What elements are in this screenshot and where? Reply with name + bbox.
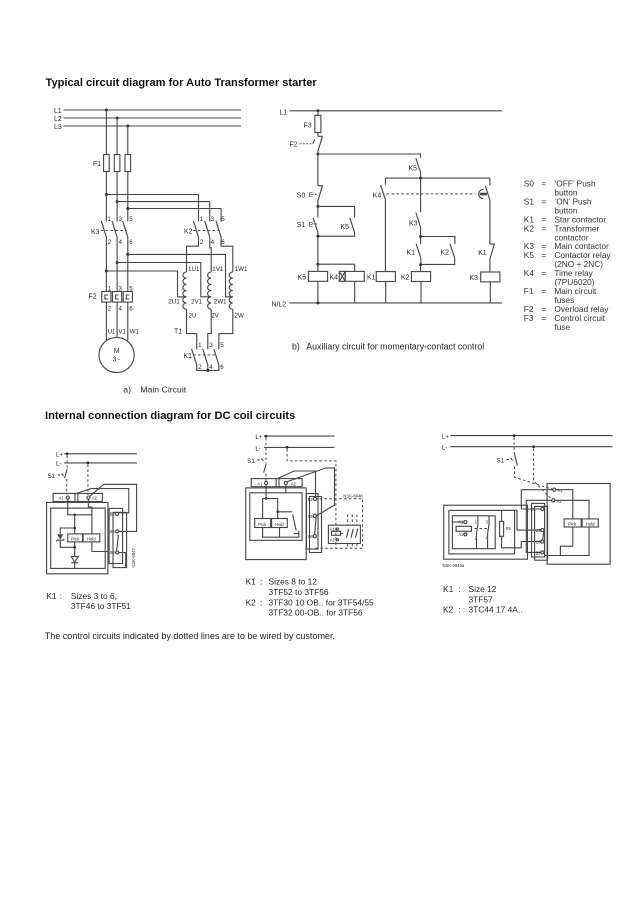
svg-text:85: 85 bbox=[110, 529, 115, 534]
svg-text:Sizes 3 to 6,: Sizes 3 to 6, bbox=[71, 591, 117, 601]
autotransformer T1 winding U phase bbox=[168, 266, 200, 320]
svg-text:3TF46 to 3TF51: 3TF46 to 3TF51 bbox=[71, 601, 131, 611]
node below S0 bbox=[316, 205, 319, 208]
wire K1 coil to N/L2 bbox=[385, 282, 387, 303]
DC2 aux terminal B2 bbox=[308, 497, 317, 502]
wire K2 pole6 to winding 1W1 bbox=[221, 237, 233, 272]
wire 2W to K1 pole 5 bbox=[219, 309, 233, 349]
DC3 type labels K1 K2 bbox=[443, 584, 523, 614]
DC2 aux contact block boxes bbox=[307, 494, 322, 553]
svg-text:=: = bbox=[541, 197, 546, 207]
svg-text:96: 96 bbox=[308, 534, 313, 539]
svg-text:L+: L+ bbox=[442, 433, 449, 440]
svg-text:A1: A1 bbox=[330, 526, 336, 531]
wire 2V to K1 pole 3 bbox=[208, 309, 211, 349]
svg-text:2W1: 2W1 bbox=[214, 299, 227, 306]
svg-text:The control circuits indicated: The control circuits indicated by dotted… bbox=[45, 631, 335, 641]
svg-text:M: M bbox=[114, 348, 120, 355]
node branch to K2 pole 3 bbox=[116, 200, 210, 203]
wire K3 coil to N/L2 bbox=[489, 282, 491, 303]
DC2 aux terminal 96 bbox=[308, 534, 316, 539]
svg-text:L2: L2 bbox=[54, 116, 62, 123]
svg-text:5: 5 bbox=[129, 216, 133, 223]
wire parallel branch top bbox=[318, 206, 355, 217]
svg-text:1: 1 bbox=[200, 216, 204, 223]
DC1 switch S1 bbox=[48, 456, 68, 495]
svg-text:N/L2: N/L2 bbox=[272, 301, 287, 308]
DC1 rail L- bbox=[56, 461, 137, 468]
legend K3 bbox=[524, 241, 609, 251]
DC3 middle aux module boxes bbox=[532, 503, 548, 560]
svg-text:85: 85 bbox=[308, 514, 313, 519]
DC2 aux terminal 85 bbox=[308, 514, 316, 519]
wire into K5 coil bbox=[317, 264, 319, 271]
svg-text:Pick: Pick bbox=[258, 522, 267, 527]
svg-text:3~: 3~ bbox=[113, 356, 121, 363]
svg-text:K2: K2 bbox=[441, 250, 450, 257]
DC3 rail L- bbox=[442, 445, 613, 452]
supply line L1 bbox=[54, 108, 241, 115]
contact K5 parallel with S1 (NO) bbox=[318, 218, 355, 236]
svg-text:2W: 2W bbox=[235, 313, 244, 320]
svg-text:1U1: 1U1 bbox=[188, 266, 200, 273]
DC2 wire A2 stub bbox=[285, 485, 287, 493]
svg-text:6: 6 bbox=[129, 306, 133, 313]
DC1 terminal strip A1 A2 bbox=[53, 493, 102, 501]
svg-text:=: = bbox=[541, 313, 546, 323]
ON push button S1 (NO) bbox=[297, 206, 318, 236]
svg-text:Rs: Rs bbox=[506, 526, 511, 531]
svg-text:A1: A1 bbox=[558, 488, 564, 493]
svg-text::: : bbox=[459, 605, 461, 615]
DC3 relay K2 box (3TC44) bbox=[452, 516, 495, 549]
DC2 drawing number NSK-6948 bbox=[343, 494, 363, 499]
svg-text:6: 6 bbox=[221, 239, 225, 246]
svg-text:K3: K3 bbox=[91, 229, 100, 236]
wire F3 to F2 contact bbox=[317, 133, 319, 137]
svg-text:1: 1 bbox=[108, 216, 112, 223]
DC2 switch S1 bbox=[247, 438, 266, 481]
contact K1 (NO) above K2 coil bbox=[407, 237, 421, 265]
DC1 zener diode branch bbox=[56, 528, 75, 547]
heading: Typical circuit diagram for Auto Transformer starter bbox=[46, 77, 318, 89]
svg-text:=: = bbox=[541, 223, 546, 233]
svg-text:2V: 2V bbox=[211, 313, 219, 320]
svg-text:B2: B2 bbox=[308, 497, 314, 502]
legend F3 bbox=[524, 313, 606, 332]
svg-text::: : bbox=[60, 591, 62, 601]
node below S1 bbox=[316, 235, 319, 265]
svg-text:K1: K1 bbox=[246, 577, 257, 587]
svg-text:Internal connection diagram fo: Internal connection diagram for DC coil … bbox=[45, 410, 295, 422]
DC2 wire strip to terminal B2 bbox=[278, 471, 316, 497]
DC3 switch S1 bbox=[497, 437, 553, 489]
svg-text:NSK-6947: NSK-6947 bbox=[131, 548, 136, 568]
svg-text:3TF30 10 OB.. for 3TF54/55: 3TF30 10 OB.. for 3TF54/55 bbox=[269, 597, 375, 607]
svg-text:V1: V1 bbox=[118, 328, 126, 335]
svg-text:K1: K1 bbox=[443, 584, 454, 594]
DC2 bottom rail wires bbox=[263, 528, 299, 538]
DC3 wire Rs bottom to terminal 28 bbox=[502, 536, 541, 548]
wire K3 pole2 down bbox=[105, 237, 107, 292]
svg-text:3TF32 00-OB.. for 3TF56: 3TF32 00-OB.. for 3TF56 bbox=[269, 608, 363, 618]
svg-text:a): a) bbox=[123, 385, 131, 395]
wire F2 to motor V1 bbox=[116, 302, 118, 337]
node branch to K2 pole 5 bbox=[126, 207, 221, 210]
svg-text:L3: L3 bbox=[54, 124, 62, 131]
DC3 terminal A1 bbox=[553, 488, 564, 493]
svg-text:E: E bbox=[309, 222, 313, 229]
contactor K3 bbox=[91, 216, 133, 246]
legend S0 bbox=[524, 179, 596, 198]
star point wire of K1 bbox=[197, 364, 219, 372]
node after F2 bbox=[316, 151, 319, 186]
wire K3 pole4 down bbox=[116, 237, 118, 292]
svg-text:S1: S1 bbox=[297, 222, 306, 229]
svg-text:3: 3 bbox=[119, 216, 123, 223]
DC1 Pick coil box bbox=[68, 534, 83, 542]
svg-text:4: 4 bbox=[209, 364, 213, 371]
DC2 wire to Hold and internal contact bbox=[276, 499, 298, 534]
fuse F3 bbox=[304, 115, 321, 132]
wire F2 to motor W1 bbox=[127, 302, 129, 341]
svg-text:Sizes 8 to 12: Sizes 8 to 12 bbox=[269, 577, 318, 587]
legend K1 bbox=[524, 215, 606, 225]
svg-text:T1: T1 bbox=[174, 329, 182, 336]
svg-text:E: E bbox=[309, 192, 313, 199]
DC3 contact stub wires bbox=[477, 516, 490, 549]
svg-text:K2: K2 bbox=[184, 229, 193, 236]
svg-text:K4: K4 bbox=[330, 275, 339, 282]
svg-text:2: 2 bbox=[200, 239, 204, 246]
svg-text:F2: F2 bbox=[290, 142, 298, 149]
node branch to K4 coil bbox=[316, 263, 354, 272]
svg-text:A2: A2 bbox=[458, 532, 464, 537]
svg-text:6: 6 bbox=[129, 239, 133, 246]
svg-text:4: 4 bbox=[211, 239, 215, 246]
svg-text:5: 5 bbox=[220, 342, 224, 349]
DC3 resistor Rs bbox=[500, 521, 511, 536]
DC1 contactor body outer box bbox=[47, 502, 108, 573]
DC2 terminal strip A1 A2 bbox=[251, 479, 302, 487]
aux supply line L1 bbox=[280, 109, 503, 116]
svg-text:F2: F2 bbox=[89, 294, 97, 301]
DC3 drawing number NSK-6949a bbox=[443, 563, 465, 568]
DC1 drawing number NSK-6947 bbox=[131, 548, 136, 568]
star contactor K1 bbox=[184, 342, 225, 371]
junction on L1 bbox=[105, 109, 108, 112]
DC2 rail L- bbox=[255, 445, 334, 452]
DC3 module terminal B1 bbox=[531, 507, 544, 512]
svg-text:L-: L- bbox=[56, 461, 62, 468]
DC1 dashed L- to A2 bbox=[87, 465, 89, 496]
transformer contactor coil K2 bbox=[401, 272, 431, 282]
DC3 left outer box bbox=[444, 505, 528, 559]
time relay coil K4 bbox=[330, 271, 365, 281]
DC1 wire node to Pick bbox=[73, 515, 76, 534]
DC2 relay K2 box bbox=[328, 525, 360, 543]
DC1 aux terminal 96 bbox=[110, 550, 119, 555]
overload relay contact F2 (NC) bbox=[290, 136, 323, 151]
DC3 Pick Hold bottom wires bbox=[545, 527, 589, 556]
contactor relay coil K5 bbox=[298, 271, 328, 281]
svg-text:K2: K2 bbox=[524, 223, 535, 233]
svg-text:L-: L- bbox=[255, 445, 261, 452]
svg-text:6: 6 bbox=[220, 364, 224, 371]
DC1 inner box bbox=[51, 508, 105, 568]
wire K3 pole6 down bbox=[127, 237, 129, 292]
DC2 type labels K1 K2 bbox=[246, 577, 374, 618]
DC2 wire A1 down bbox=[263, 485, 278, 500]
neutral line N/L2 bbox=[272, 301, 503, 308]
svg-text:K3: K3 bbox=[470, 275, 479, 282]
footnote about dotted lines bbox=[45, 631, 335, 641]
svg-text:b): b) bbox=[292, 341, 300, 351]
bus node line y178 bbox=[385, 177, 490, 180]
svg-text:96: 96 bbox=[110, 550, 115, 555]
svg-text:K1: K1 bbox=[407, 250, 416, 257]
svg-text:K3: K3 bbox=[409, 220, 418, 227]
svg-text::: : bbox=[260, 597, 262, 607]
wire K2 pole4 to winding 1V1 bbox=[210, 237, 211, 272]
DC1 wire A1 down bbox=[68, 499, 92, 516]
svg-text:K1: K1 bbox=[367, 275, 376, 282]
svg-text:NSK-6949a: NSK-6949a bbox=[443, 563, 465, 568]
DC3 left middle box bbox=[449, 510, 515, 554]
wire K5 coil to N/L2 bbox=[317, 281, 319, 303]
legend K4 bbox=[524, 268, 595, 287]
svg-text:L-: L- bbox=[442, 445, 448, 452]
svg-text:3: 3 bbox=[211, 216, 215, 223]
svg-text:K4: K4 bbox=[524, 268, 535, 278]
svg-text:NSK-6948: NSK-6948 bbox=[343, 494, 363, 499]
svg-text:3TF57: 3TF57 bbox=[469, 594, 494, 604]
svg-text:K1: K1 bbox=[478, 250, 487, 257]
star contactor coil K1 bbox=[367, 272, 395, 282]
svg-text:2U1: 2U1 bbox=[168, 299, 180, 306]
svg-text:F3: F3 bbox=[304, 123, 312, 130]
wire L1 to fuse F1a bbox=[105, 110, 107, 155]
svg-text:A1: A1 bbox=[59, 496, 65, 501]
svg-text:L+: L+ bbox=[255, 434, 262, 441]
node tap line to 2W1 bbox=[126, 253, 233, 297]
svg-text:2U: 2U bbox=[189, 313, 197, 320]
svg-text:2: 2 bbox=[108, 306, 112, 313]
wire fuse F1b to contactor K3 pole 3 bbox=[116, 172, 118, 222]
time-delay contact of K4 (right) bbox=[479, 178, 490, 244]
DC3 terminal A2 bbox=[552, 499, 563, 504]
DC2 Hold coil box bbox=[272, 519, 288, 528]
svg-text:S1: S1 bbox=[497, 457, 505, 464]
DC3 module terminal 28 bbox=[536, 539, 544, 544]
svg-text:Pick: Pick bbox=[71, 537, 80, 542]
svg-text:S1: S1 bbox=[524, 197, 535, 207]
svg-text:3: 3 bbox=[209, 342, 213, 349]
svg-text:3TF52 to 3TF56: 3TF52 to 3TF56 bbox=[269, 587, 329, 597]
contact K4 (NO, left) bbox=[373, 178, 386, 272]
svg-text:fuse: fuse bbox=[554, 322, 570, 332]
DC3 wire A1 to Pick bbox=[556, 490, 573, 519]
svg-text:L+: L+ bbox=[56, 452, 63, 459]
node above K2 coil bbox=[419, 263, 422, 271]
DC2 dashed box bottom bbox=[315, 499, 362, 549]
svg-text:K2: K2 bbox=[401, 275, 410, 282]
svg-text:=: = bbox=[541, 179, 546, 189]
svg-text:1: 1 bbox=[198, 342, 202, 349]
node L1 to F3 bbox=[316, 109, 319, 115]
wire fuse F1a to contactor K3 pole 1 bbox=[105, 172, 107, 222]
DC2 Pick coil box bbox=[255, 519, 271, 528]
DC3 wire coil A1 to box edge bbox=[452, 521, 464, 523]
svg-text:K5: K5 bbox=[298, 275, 307, 282]
wire K2 pole2 to winding 1U1 bbox=[187, 237, 199, 272]
autotransformer T1 winding V phase bbox=[191, 266, 224, 320]
svg-text:W1: W1 bbox=[130, 328, 140, 335]
DC2 dashed L- into customer box bbox=[287, 449, 336, 548]
DC3 wire A2 to Hold bbox=[555, 500, 589, 519]
svg-text:A2: A2 bbox=[330, 537, 336, 542]
junction on L3 bbox=[126, 125, 129, 128]
svg-text:Pick: Pick bbox=[568, 522, 577, 527]
svg-text:2V1: 2V1 bbox=[191, 299, 203, 306]
DC2 dashed leads of relay K2 bbox=[348, 515, 357, 549]
mechanical link dashed K4 to delayed contact bbox=[387, 193, 476, 195]
DC1 freewheel diode bbox=[71, 542, 78, 569]
DC2 rail L+ bbox=[255, 434, 334, 441]
svg-text:1V1: 1V1 bbox=[212, 266, 224, 273]
DC1 rail L+ bbox=[56, 452, 137, 459]
svg-text:S1: S1 bbox=[48, 473, 56, 480]
svg-text:B1: B1 bbox=[531, 507, 537, 512]
DC1 Hold coil box bbox=[83, 534, 100, 542]
wire 2U to K1 pole 1 bbox=[187, 309, 197, 349]
wire branch to K5 contact bbox=[318, 154, 421, 158]
svg-text:Typical circuit diagram for Au: Typical circuit diagram for Auto Transfo… bbox=[46, 77, 318, 89]
svg-text:=: = bbox=[541, 286, 546, 296]
svg-text:S0: S0 bbox=[524, 179, 535, 189]
svg-text:L1: L1 bbox=[54, 108, 62, 115]
DC3 Pick coil box bbox=[564, 519, 581, 527]
node below K3 contact bbox=[419, 235, 455, 244]
DC1 wire Hold to aux block bbox=[92, 542, 108, 552]
DC1 aux terminal B2 bbox=[110, 512, 119, 517]
legend S1 bbox=[524, 197, 592, 216]
supply line L2 bbox=[54, 116, 241, 123]
DC3 rail L+ bbox=[442, 433, 613, 440]
svg-text:A1: A1 bbox=[257, 481, 263, 486]
autotransformer T1 winding W phase bbox=[214, 266, 248, 320]
DC3 module terminal B2 bbox=[536, 550, 544, 555]
DC3 contactor big box bbox=[547, 484, 610, 565]
wire L2 to fuse F1b bbox=[116, 118, 118, 155]
svg-text:1: 1 bbox=[475, 519, 478, 524]
svg-text:K5: K5 bbox=[341, 224, 350, 231]
svg-text:S0: S0 bbox=[297, 193, 306, 200]
heading: Internal connection diagram for DC coil circuits bbox=[45, 410, 295, 422]
DC1 aux contact blade 85-96 bbox=[117, 535, 119, 551]
svg-text:4: 4 bbox=[119, 306, 123, 313]
svg-text:Auxiliary circuit for momentar: Auxiliary circuit for momentary-contact … bbox=[306, 341, 484, 351]
DC1 wire strip to terminal B2 bbox=[76, 489, 128, 513]
caption a) Main Circuit bbox=[123, 385, 186, 395]
supply line L3 bbox=[54, 124, 241, 131]
wire F2 to motor U1 bbox=[105, 302, 107, 341]
svg-text::: : bbox=[459, 584, 461, 594]
contact K3 (NO, middle) bbox=[409, 178, 421, 236]
contact K2 (NO) parallel bbox=[421, 244, 455, 265]
DC1 wire 96 right bbox=[119, 553, 126, 568]
DC1 type label K1 bbox=[46, 591, 131, 611]
DC3 module terminal 23 bbox=[536, 528, 544, 533]
svg-text:K5: K5 bbox=[409, 166, 418, 173]
svg-text:U1: U1 bbox=[108, 328, 116, 335]
node branch to K2 pole 1 bbox=[105, 193, 199, 196]
svg-text:Main Circuit: Main Circuit bbox=[140, 385, 186, 395]
svg-text:F1: F1 bbox=[93, 161, 101, 168]
svg-text:K2: K2 bbox=[443, 605, 454, 615]
contact K5 in series branch (NO) bbox=[409, 158, 421, 178]
svg-text:5: 5 bbox=[221, 216, 225, 223]
DC1 aux terminal 85 bbox=[110, 529, 119, 534]
svg-text:Hold: Hold bbox=[275, 522, 284, 527]
DC2 inner box bbox=[250, 493, 302, 541]
svg-text:4: 4 bbox=[119, 239, 123, 246]
svg-text:F3: F3 bbox=[524, 313, 534, 323]
svg-text:3: 3 bbox=[486, 519, 489, 524]
main contactor coil K3 bbox=[470, 272, 500, 282]
junction on L2 bbox=[116, 117, 119, 120]
legend F2 bbox=[524, 304, 609, 314]
svg-text:S1: S1 bbox=[247, 458, 255, 465]
DC3 wire A1 loop to B1 bbox=[521, 490, 552, 509]
svg-text:K2: K2 bbox=[246, 597, 257, 607]
DC2 contactor body outer box bbox=[246, 488, 307, 560]
DC1 wire A2 to Hold bbox=[88, 499, 92, 534]
DC3 module contact blade bbox=[543, 532, 544, 540]
legend K2 bbox=[524, 223, 600, 242]
OFF push button S0 (NC) bbox=[297, 186, 323, 207]
svg-text:A2: A2 bbox=[92, 496, 98, 501]
DC2 aux contact blade 85-96 bbox=[315, 518, 317, 535]
wire fuse F1c to contactor K3 pole 5 bbox=[127, 172, 129, 222]
wire K4 coil to N/L2 bbox=[354, 281, 356, 303]
DC3 dashed L- to A2 bbox=[534, 448, 552, 499]
svg-text:2: 2 bbox=[108, 239, 112, 246]
svg-text:=: = bbox=[541, 250, 546, 260]
svg-text:Size 12: Size 12 bbox=[469, 584, 497, 594]
legend F1 bbox=[524, 286, 597, 305]
overload relay F2 bbox=[89, 285, 134, 312]
svg-text:Hold: Hold bbox=[87, 537, 96, 542]
DC3 wire A2 loop to B2 bbox=[526, 500, 551, 552]
wire K2 coil to N/L2 bbox=[420, 282, 422, 303]
DC1 aux contact block boxes bbox=[109, 508, 127, 567]
fuse F1 (three fuses) bbox=[93, 155, 131, 172]
motor M 3~ bbox=[99, 337, 134, 372]
svg-text:1W1: 1W1 bbox=[235, 266, 248, 273]
svg-text:L1: L1 bbox=[280, 109, 288, 116]
svg-text:F1: F1 bbox=[524, 286, 534, 296]
svg-text::: : bbox=[260, 577, 262, 587]
node tap line to 2V1 bbox=[116, 261, 212, 297]
svg-text:K4: K4 bbox=[373, 192, 382, 199]
label T1 bbox=[174, 329, 182, 336]
DC3 Hold coil box bbox=[582, 519, 598, 527]
contactor K2 bbox=[184, 195, 225, 246]
svg-text:Hold: Hold bbox=[586, 522, 595, 527]
DC1 wire A2 to terminal 85 bbox=[90, 484, 137, 531]
svg-text:K5: K5 bbox=[524, 250, 535, 260]
